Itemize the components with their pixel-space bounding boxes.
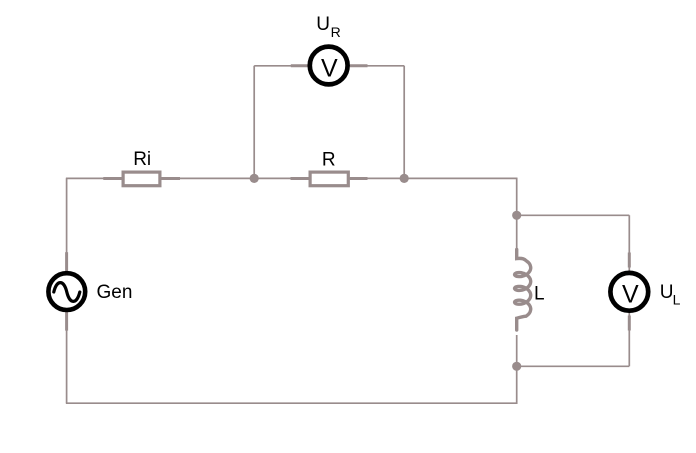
resistor Ri bbox=[103, 172, 180, 186]
svg-text:U: U bbox=[316, 14, 330, 35]
node junction D (bottom of L) bbox=[512, 362, 521, 371]
svg-text:U: U bbox=[660, 282, 674, 303]
svg-text:V: V bbox=[622, 280, 639, 308]
resistor R bbox=[291, 172, 368, 186]
svg-text:Gen: Gen bbox=[97, 282, 133, 303]
wire: right vertical (node to bottom corner) bbox=[516, 366, 518, 404]
svg-text:L: L bbox=[673, 292, 681, 308]
svg-text:L: L bbox=[534, 284, 545, 305]
generator Gen bbox=[48, 252, 85, 330]
voltmeter U_R meter bbox=[291, 47, 368, 85]
wire: right vertical (node to inductor) bbox=[516, 215, 518, 249]
wire: right vertical (inductor to node) bbox=[516, 335, 518, 366]
node junction C (top of L) bbox=[512, 211, 521, 220]
wire: U_L loop bottom horizontal bbox=[517, 365, 630, 367]
svg-text:Ri: Ri bbox=[133, 149, 151, 170]
wire: U_R loop left vertical bbox=[253, 66, 255, 179]
wire: U_R loop right vertical bbox=[403, 66, 405, 179]
wire: U_L loop right vertical bbox=[628, 215, 630, 366]
node junction B (right of R) bbox=[400, 174, 409, 183]
wire: left vertical branch with generator bbox=[66, 178, 68, 403]
label U_R bbox=[316, 14, 341, 40]
wire: main top horizontal (middle section through R) bbox=[254, 177, 404, 179]
node junction A (left of R) bbox=[250, 174, 259, 183]
svg-text:R: R bbox=[331, 24, 341, 40]
wire: main bottom horizontal bbox=[66, 402, 518, 404]
label U_L bbox=[660, 282, 681, 308]
wire: U_L loop top horizontal bbox=[517, 214, 630, 216]
svg-text:R: R bbox=[322, 150, 336, 171]
wire: right vertical (top section to node) bbox=[516, 178, 518, 216]
wire: main top horizontal (left section through Ri) bbox=[66, 177, 254, 179]
wire: U_R loop top horizontal bbox=[254, 65, 404, 67]
wire: main top horizontal (right section) bbox=[404, 177, 517, 179]
inductor L bbox=[515, 250, 531, 331]
svg-text:V: V bbox=[321, 54, 338, 82]
voltmeter U_L meter bbox=[610, 253, 648, 331]
